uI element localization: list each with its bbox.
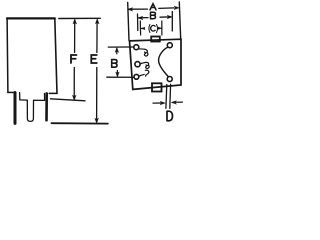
dimension A line + arrows: [129, 8, 148, 10]
coil-wire squiggle between P2 and P3: [140, 62, 149, 68]
extension line B left: [137, 14, 139, 31]
top extension line (from body top): [59, 17, 101, 19]
extension line C right: [161, 21, 163, 35]
left view: body bottom edge right segment: [49, 92, 57, 94]
label E: [91, 55, 97, 63]
extension line C left: [139, 21, 141, 35]
pin circle P2 (mid-left): [135, 62, 140, 67]
label D: [167, 111, 173, 121]
pin 2 (hollow outline): [27, 100, 33, 121]
pin circle P3 (bottom-left): [134, 74, 139, 79]
left-side dimension B: up arrow: [116, 49, 118, 54]
left view: base standoff step (left): [20, 93, 28, 101]
left-side dimension B (vertical, on bottom view): top line: [108, 46, 133, 48]
coil-wire curl below mid pin: [145, 70, 149, 76]
label (C) with small arrows: [149, 25, 150, 33]
pin circle P5 (bottom-right): [167, 77, 172, 82]
pin 1 (mounting lug, filled): [14, 93, 17, 124]
right view: top mounting tab: [151, 37, 160, 42]
left-side dimension B: bottom line: [107, 76, 134, 78]
lead wires below bottom-right pin: [165, 85, 168, 109]
right view: body outline: [130, 39, 182, 89]
label B (top): [151, 12, 156, 19]
coil-wire squiggle between P1 and P2: [138, 49, 148, 56]
left view: component body outline: [7, 17, 55, 19]
dimension D lines + arrows: [153, 102, 162, 104]
seating-plane extension line (F bottom): [51, 99, 86, 101]
extension line A left: [128, 3, 129, 41]
dimension F line with arrows: [74, 21, 76, 53]
pin-tip extension line (E bottom): [52, 122, 108, 124]
short wire from P3: [139, 74, 144, 76]
extension line B right: [171, 12, 173, 32]
right view: bottom mounting tab: [152, 83, 162, 91]
label F: [71, 55, 77, 63]
pin circle P1 (top-left): [134, 45, 139, 50]
dimension E line with arrows: [96, 21, 98, 53]
wire curve from P4 to P5: [159, 47, 169, 77]
pin 3 (filled): [45, 93, 48, 120]
extension line A right: [179, 2, 180, 39]
left view: base standoff step (right): [34, 93, 45, 100]
pin circle P4 (top-right): [167, 43, 172, 48]
left-side dimension B: down arrow: [116, 71, 118, 76]
dimension B (top) line + arrows: [139, 17, 148, 19]
left view: body bottom edge left segment: [8, 91, 13, 93]
label A: [150, 4, 156, 10]
label B (left side): [112, 60, 117, 68]
